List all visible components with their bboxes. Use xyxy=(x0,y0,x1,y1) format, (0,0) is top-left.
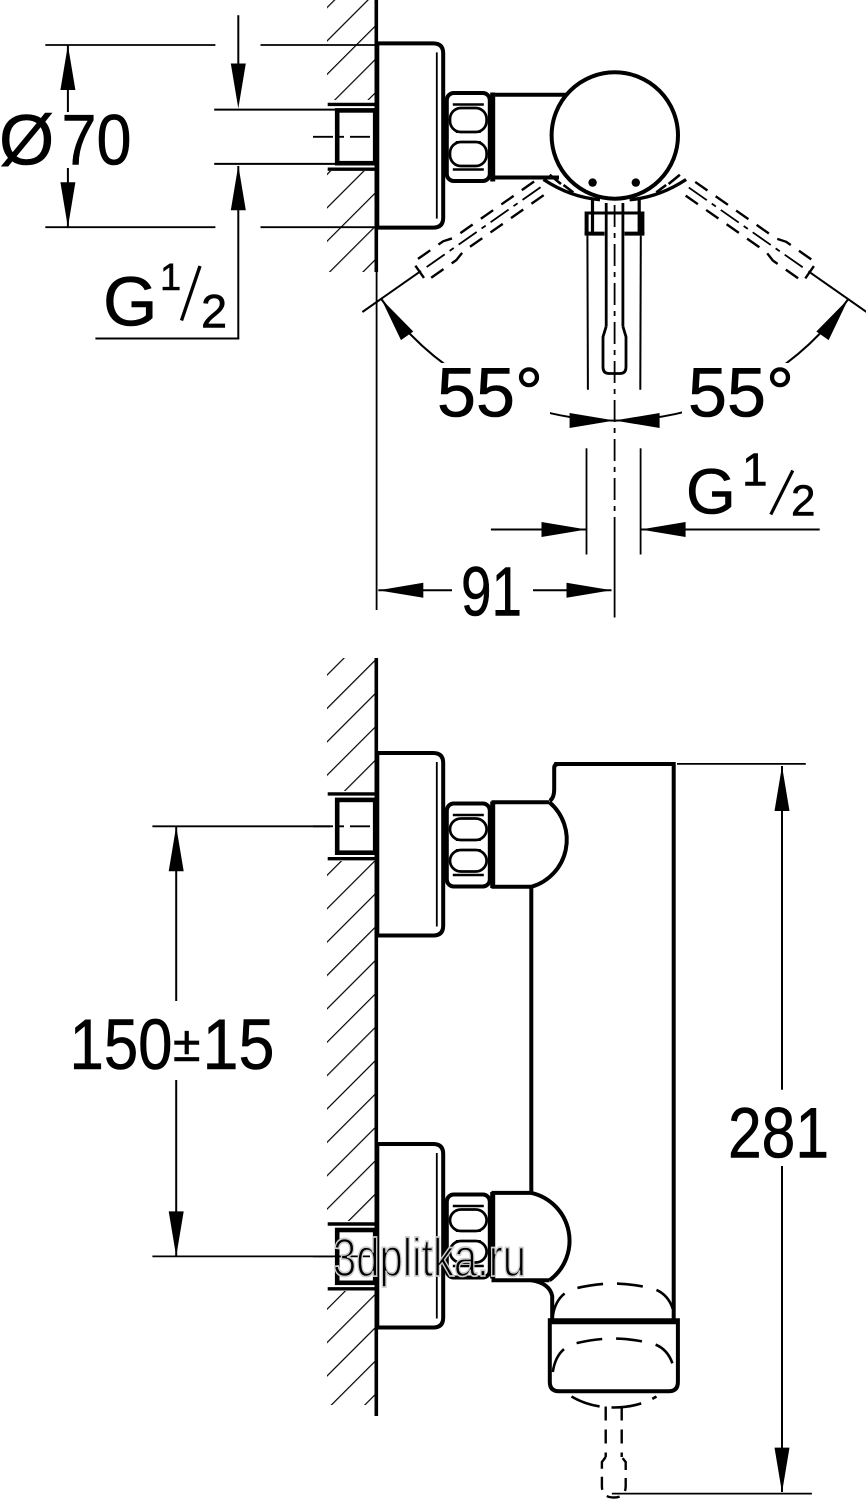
svg-text:91: 91 xyxy=(461,553,522,631)
dia 70 dimension line with arrows xyxy=(67,45,69,112)
mixer body (circle, top view) xyxy=(552,72,678,198)
svg-text:15: 15 xyxy=(203,1006,275,1085)
svg-text:55°: 55° xyxy=(688,354,794,432)
in-wall union square lower (side view) xyxy=(313,1224,375,1289)
supply pipe (top view) xyxy=(214,109,336,111)
svg-text:3dplitka.ru: 3dplitka.ru xyxy=(333,1228,526,1288)
svg-text:1: 1 xyxy=(742,443,768,495)
wall surface edge (top view) xyxy=(374,0,378,272)
svg-text:1: 1 xyxy=(160,257,181,299)
svg-text:150: 150 xyxy=(70,1006,173,1085)
svg-text:Ø: Ø xyxy=(0,102,54,181)
right shoulder arc xyxy=(630,180,687,200)
outlet collar at bottom of body xyxy=(550,1320,678,1391)
G 1/2 dimension (handle connection, top view right) xyxy=(586,448,588,554)
dashed lever swung right 55deg xyxy=(682,178,866,322)
top view: white clearance for supply pipe through wall xyxy=(325,100,377,171)
91 dimension xyxy=(378,589,452,591)
arc arrowheads meeting at center line xyxy=(570,413,615,428)
svg-text:70: 70 xyxy=(62,102,132,181)
G 1/2 label (wall connection, top view) with leader arrows xyxy=(237,15,239,64)
svg-text:±: ± xyxy=(173,1016,200,1072)
svg-text:G: G xyxy=(103,263,157,341)
svg-text:281: 281 xyxy=(728,1095,829,1174)
hex union nut lower (side view) xyxy=(447,1195,490,1278)
svg-text:2: 2 xyxy=(201,285,227,338)
side view: wall hatching xyxy=(327,658,377,1405)
svg-text:55°: 55° xyxy=(437,354,543,432)
svg-text:2: 2 xyxy=(791,476,815,525)
wall surface edge (side view) xyxy=(374,658,378,1416)
extension line from wall edge down to 91 dimension xyxy=(376,272,378,610)
hex union nut (top view) xyxy=(447,93,490,181)
lever collar (top view) xyxy=(591,200,594,234)
arc arrowheads at 55 deg lines xyxy=(375,295,413,340)
hex union nut upper (side view) xyxy=(447,804,490,887)
lever handle pointing down (solid position) xyxy=(605,203,608,326)
connection pipe between nut and mixer body (top view) xyxy=(490,93,495,182)
281 dimension xyxy=(677,763,806,765)
55deg angle dimension arc xyxy=(381,299,848,421)
cartridge screws (two dots) xyxy=(588,178,596,186)
dia 70 extension lines (escutcheon OD) xyxy=(45,44,215,46)
lever axis centerline xyxy=(614,205,616,520)
left shoulder arc below pipe xyxy=(544,180,601,200)
escutcheon upper (side view) xyxy=(377,753,443,936)
in-wall union square (top view) xyxy=(313,104,375,169)
escutcheon / wall flange (top view) xyxy=(377,43,443,227)
upper connection: pipe + dome into body xyxy=(492,802,567,889)
150 +-15 dimension xyxy=(152,825,330,827)
mixer body (side view) xyxy=(531,764,673,1321)
svg-text:G: G xyxy=(686,456,736,528)
hidden outlet detail (dashed arcs) xyxy=(553,1284,675,1317)
escutcheon lower (side view) xyxy=(377,1144,443,1328)
dashed lever swung left 55deg xyxy=(356,178,547,322)
lower connection: pipe + dome into body xyxy=(492,1192,570,1280)
in-wall union square upper (side view) xyxy=(313,794,375,859)
top view: wall hatching xyxy=(327,0,377,272)
hidden shower hose nipple (dashed) xyxy=(605,1407,607,1458)
lever cone silhouette lines xyxy=(586,236,589,390)
